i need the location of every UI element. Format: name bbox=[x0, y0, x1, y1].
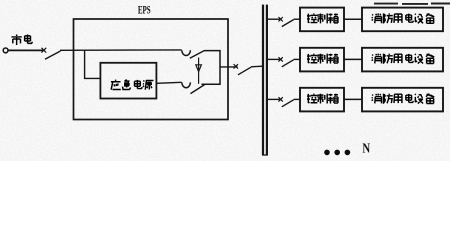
svg-text:N: N bbox=[362, 141, 370, 156]
svg-text:EPS: EPS bbox=[138, 3, 151, 17]
